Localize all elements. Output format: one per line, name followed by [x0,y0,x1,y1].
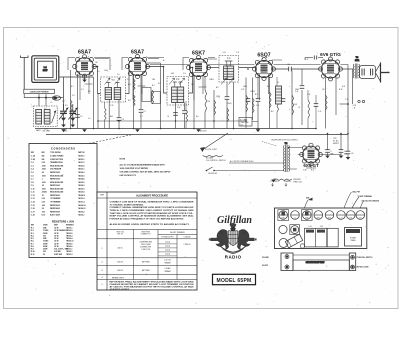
tube V4 [253,52,276,80]
svg-text:1400 KC: 1400 KC [117,270,124,272]
svg-text:REF: REF [31,224,34,226]
svg-text:3-30: 3-30 [42,202,45,204]
svg-text:7B100-4: 7B100-4 [66,237,73,240]
svg-text:IN SERIES WITH: IN SERIES WITH [140,246,151,248]
svg-text:C-11: C-11 [236,52,239,54]
svg-text:C-9: C-9 [31,185,34,187]
svg-text:3-30: 3-30 [42,198,45,200]
speaker [360,63,390,83]
svg-text:3-30: 3-30 [42,162,45,164]
svg-text:TEST POINT: TEST POINT [141,231,150,233]
svg-text:.0001: .0001 [42,182,46,184]
svg-text:C-10: C-10 [223,52,226,54]
svg-text:R-3: R-3 [88,91,91,93]
svg-text:7A101-2: 7A101-2 [78,161,85,164]
svg-text:CONNECT SIGNAL GENERATOR HIGH: CONNECT SIGNAL GENERATOR HIGH SIDE TO PO… [110,206,195,209]
svg-text:TRIMMER: TRIMMER [164,271,171,273]
svg-text:R-8: R-8 [271,111,274,113]
svg-text:R-10: R-10 [339,89,342,91]
svg-text:KEEP VOLUME CONTROL AT MAXIMUM: KEEP VOLUME CONTROL AT MAXIMUM DURING AL… [110,215,194,218]
capacitor C-9 [182,110,187,112]
svg-text:.05: .05 [128,73,130,75]
svg-text:.05: .05 [42,185,44,187]
chassis layout top view [275,208,367,249]
svg-text:.05: .05 [167,116,169,118]
svg-text:.1 MFD COND: .1 MFD COND [141,249,150,251]
wire T2 to grid V3 [189,68,193,94]
svg-text:ON-OFF: ON-OFF [262,265,268,267]
svg-text:C-7: C-7 [140,116,143,118]
parts list table [29,144,97,258]
crest [209,223,257,253]
svg-text:.1: .1 [42,179,43,181]
svg-text:2 GANG TUNING: 2 GANG TUNING [50,155,64,158]
svg-text:7A104-3: 7A104-3 [78,184,85,187]
misc component labels [72,59,342,109]
resistor R-4 [134,79,136,90]
svg-text:.0001: .0001 [171,73,175,75]
alignment procedure table [97,192,197,291]
svg-text:R-6: R-6 [208,101,211,103]
svg-text:LOW-M LOOP POSITION: LOW-M LOOP POSITION [30,92,50,94]
svg-text:PAPER 600V: PAPER 600V [50,210,61,213]
svg-text:8: 8 [331,151,332,153]
svg-text:7A105-2: 7A105-2 [78,210,85,213]
svg-text:365: 365 [42,156,45,158]
svg-text:C-2: C-2 [294,217,296,219]
svg-text:ON-OFF SW: ON-OFF SW [208,173,217,175]
output transformer T-3 [353,57,360,104]
svg-text:C-15: C-15 [31,205,35,207]
svg-text:R-2: R-2 [152,85,155,87]
svg-text:R-4: R-4 [128,84,131,86]
svg-text:50: 50 [43,254,45,256]
svg-text:C-18: C-18 [353,105,357,107]
svg-text:PAPER 600V: PAPER 600V [50,204,61,207]
T3 bottoms [227,82,234,129]
svg-text:R-7 1 MEG: R-7 1 MEG [240,120,248,122]
svg-text:POWER: POWER [350,238,357,240]
svg-text:TO CHASSIS. DUMMY ANTENNA.: TO CHASSIS. DUMMY ANTENNA. [110,203,145,206]
plate load 6SQ7 [269,77,271,129]
svg-text:ELECT 450V: ELECT 450V [50,214,61,217]
svg-text:ALIGNMENT PROCEDURE: ALIGNMENT PROCEDURE [136,194,168,198]
svg-text:.05: .05 [351,153,353,155]
svg-text:C-12: C-12 [31,195,35,197]
IF transformer T1 [101,77,126,102]
svg-text:C-6: C-6 [117,74,120,76]
volume control R-9 [200,133,228,162]
svg-text:ON-OFF SWITCH ON VOL CONTROL: ON-OFF SWITCH ON VOL CONTROL [271,140,298,142]
extra caps [246,98,251,100]
svg-text:C-5: C-5 [31,172,34,174]
svg-text:REF: REF [31,152,34,154]
cathode 6V6 [325,78,327,129]
svg-text:SUPPLY: SUPPLY [333,143,339,145]
wire loop to grid [59,77,94,110]
svg-text:8-16: 8-16 [42,215,45,217]
svg-text:MICA MOULDED: MICA MOULDED [50,187,64,190]
svg-text:C-14: C-14 [31,201,35,204]
svg-text:C-13 (1): C-13 (1) [165,246,171,248]
oscillator coil L2 box [34,106,58,127]
svg-text:B: B [262,58,263,60]
svg-text:C-17: C-17 [31,211,35,213]
node dots on antenna wire [38,97,40,99]
rectifier plate wires [298,155,341,169]
svg-text:RADIO: RADIO [225,254,242,259]
svg-text:6SQ7: 6SQ7 [257,52,270,58]
svg-text:C-4: C-4 [88,118,91,120]
svg-text:7A104-12: 7A104-12 [78,207,85,210]
AF coupling block [276,86,282,104]
svg-text:R-5: R-5 [128,100,131,102]
svg-text:RESISTORS ± 20%: RESISTORS ± 20% [52,220,75,223]
svg-text:CONNECT LOW SIDE OF SIGNAL GEN: CONNECT LOW SIDE OF SIGNAL GENERATOR THR… [110,200,195,203]
extra junction dots [97,66,349,149]
wire 6V6 plate to output transformer [340,68,353,70]
svg-text:PAPER 200V: PAPER 200V [50,184,61,187]
svg-text:5 TO 6 MT'G: 5 TO 6 MT'G [270,181,279,183]
svg-text:.01: .01 [42,195,44,197]
svg-text:FLEX WW: FLEX WW [54,254,62,256]
svg-text:R-11: R-11 [31,254,35,256]
svg-text:MODEL 65PM: MODEL 65PM [217,278,252,284]
svg-text:.0001: .0001 [42,188,46,190]
svg-text:C-15: C-15 [240,124,243,126]
AC switch wiring [222,163,280,171]
svg-text:7A104-3: 7A104-3 [78,171,85,174]
phono terminal box [239,118,252,127]
svg-text:R-12: R-12 [311,169,314,171]
svg-text:6SA7: 6SA7 [131,49,144,55]
svg-text:C-16: C-16 [295,91,298,93]
svg-text:C-12: C-12 [241,89,244,91]
capacitor C-11 [225,96,230,98]
svg-text:VOL CONTROL + SWITCH: VOL CONTROL + SWITCH [206,160,226,162]
note text block [120,158,172,177]
svg-text:6SQ7: 6SQ7 [328,217,332,219]
variable capacitor C-1B [68,104,77,125]
svg-text:C-17: C-17 [305,59,308,61]
svg-text:SCREWS: SCREWS [284,181,291,183]
svg-text:C-7: C-7 [144,111,147,113]
svg-text:7A102-5: 7A102-5 [78,181,85,184]
diode load resistors [245,78,247,129]
svg-text:B+: B+ [163,60,165,62]
svg-text:C-7: C-7 [31,179,34,181]
svg-text:MICA MOULDED: MICA MOULDED [50,164,64,167]
svg-text:I F TRIMMER: I F TRIMMER [50,202,61,204]
svg-text:455 KC: 455 KC [118,248,124,250]
tone capacitor C-17 [305,57,313,59]
wire T3 to 6SQ7 [239,67,256,69]
IF transformer T2 [167,77,189,106]
cathode network V2 [133,75,135,129]
model 65PM box [213,274,256,284]
tube V1 [73,50,97,79]
svg-text:7A101-4: 7A101-4 [78,201,85,204]
svg-text:VOLUME CONTROL SET AT MAX, ZER: VOLUME CONTROL SET AT MAX, ZERO SIG INPU… [120,171,172,174]
svg-text:6SA7: 6SA7 [78,50,91,56]
svg-text:NOTE: NOTE [120,158,126,160]
svg-text:C-11: C-11 [31,192,35,194]
svg-text:7B102-3: 7B102-3 [66,254,73,256]
line cap C-23 [347,134,349,152]
svg-text:FIELD COIL: FIELD COIL [294,181,303,183]
svg-text:R-2: R-2 [158,83,161,85]
B+ line right [347,104,349,134]
svg-text:C-12: C-12 [256,105,259,107]
heater wires [85,84,207,87]
svg-text:C-18: C-18 [31,215,35,217]
filter capacitor C-22 [340,134,342,150]
svg-text:6X5: 6X5 [359,217,362,219]
svg-text:7A100-1: 7A100-1 [78,155,85,158]
svg-text:C-6: C-6 [122,119,125,121]
svg-text:TEST OSC: TEST OSC [116,231,124,233]
cathode 6SQ7 [257,77,259,99]
wire plate V2 to T2 [147,67,168,94]
svg-text:C-2: C-2 [62,101,65,103]
wire under loop label [24,94,63,98]
wire x77.5 [77,74,79,129]
svg-text:C-3: C-3 [81,89,84,91]
svg-text:C-15: C-15 [318,111,321,113]
svg-text:7A104-14: 7A104-14 [78,204,85,207]
capacitor C-6 [117,117,122,119]
svg-text:C-10: C-10 [31,188,35,190]
tone cap [301,90,303,125]
svg-text:C-13: C-13 [31,198,35,200]
extra stage wires [80,75,269,100]
svg-text:7A102-5: 7A102-5 [78,187,85,190]
svg-text:PM SPKR: PM SPKR [294,179,302,181]
svg-text:C O N D E N S E R S: C O N D E N S E R S [51,148,75,151]
svg-text:CONNECT TO:: CONNECT TO: [141,234,152,236]
svg-text:OHMS: OHMS [43,224,48,226]
svg-text:.0001: .0001 [42,175,46,177]
wire plate V3 to T3 [208,67,220,69]
B+ node [347,103,349,105]
svg-text:7A102-5: 7A102-5 [78,174,85,177]
svg-text:CHASSIS FRONT VIEW: CHASSIS FRONT VIEW [306,261,325,264]
B- bus wire [46,134,348,136]
svg-text:R-1: R-1 [65,105,68,107]
screen dropper box [142,88,151,102]
resistor R-6 [205,90,207,112]
wire T1 to grid V2 [126,67,130,94]
svg-text:.006: .006 [42,211,45,213]
svg-text:T-3: T-3 [356,57,358,59]
svg-text:C-4C OSC: C-4C OSC [164,260,171,262]
tube V2 [126,49,150,78]
svg-text:L-2: L-2 [44,108,47,110]
tube V5 [319,52,343,81]
svg-text:.0002: .0002 [42,169,46,171]
svg-text:.01: .01 [277,82,279,84]
svg-text:PAPER 400V: PAPER 400V [50,207,61,210]
AVC line [98,120,246,122]
svg-text:PAPER 400V: PAPER 400V [50,194,61,197]
svg-text:.05: .05 [42,172,44,174]
svg-text:POINTER AT EXACT FREQUENCY OF: POINTER AT EXACT FREQUENCY OF TEST OSC B… [110,218,185,221]
svg-text:ALL DC VOLTAGE MEASUREMENTS MA: ALL DC VOLTAGE MEASUREMENTS MADE WITH [120,163,166,166]
svg-text:C-14 (2): C-14 (2) [165,250,171,252]
svg-text:THAT WILL GIVE GOOD OUTPUT MET: THAT WILL GIVE GOOD OUTPUT METER READING… [110,212,195,215]
svg-text:STEPS: STEPS [100,195,104,197]
svg-text:C-2: C-2 [31,162,34,164]
svg-text:365: 365 [42,159,45,161]
chassis front view [281,253,356,271]
svg-text:R-6: R-6 [196,116,199,118]
svg-text:PAPER 200V: PAPER 200V [50,178,61,181]
svg-text:R-7: R-7 [255,94,258,96]
wire x214 [213,90,215,129]
field coil resistor [277,179,292,180]
svg-text:R-6: R-6 [216,87,219,89]
svg-text:C-3: C-3 [31,165,34,167]
capacitor C-7 [140,76,142,110]
loop antenna L1 [32,56,59,83]
svg-text:C-8: C-8 [191,84,194,86]
IF trimmer arrows [105,78,111,85]
tube V3 [187,50,211,79]
svg-text:R-9 VOL CONT: R-9 VOL CONT [205,149,217,151]
svg-text:C-3: C-3 [97,71,100,73]
tube V6 [300,143,323,166]
mounting note arrows [270,181,291,186]
antenna [21,56,29,90]
scan speckle [8,30,394,306]
cathode V3 [193,76,195,129]
svg-text:7A103-1: 7A103-1 [78,168,85,171]
extra resistor marks [105,108,107,120]
svg-text:T-2: T-2 [285,143,287,145]
svg-text:R-1: R-1 [71,86,74,88]
svg-text:MICA MOULDED: MICA MOULDED [50,191,64,194]
svg-text:C-4: C-4 [72,95,75,97]
chassis leader labels [305,191,379,208]
svg-text:C-17: C-17 [340,217,343,219]
wire plate V1 to T1 [93,67,100,94]
svg-text:C-8: C-8 [31,182,34,184]
svg-text:ALIGN IN ORDER GIVEN. REPEAT S: ALIGN IN ORDER GIVEN. REPEAT STEPS TO AS… [110,223,191,226]
wire x160.5 [160,63,162,129]
svg-text:C-16: C-16 [307,94,310,96]
svg-text:.005: .005 [42,205,45,207]
ground marks on bus [61,129,260,132]
svg-text:C-14: C-14 [177,107,180,109]
power transformer T-2 [280,143,303,172]
B+ distribution wire [150,65,348,105]
coupling 6SQ7 to 6V6 [273,68,322,70]
svg-text:L-2: L-2 [50,102,52,104]
on-off switch [207,167,223,171]
svg-text:C-4: C-4 [31,168,34,171]
svg-text:ADJUSTED OUTPUT.: ADJUSTED OUTPUT. [110,288,131,291]
wire x98 [97,94,99,129]
svg-text:7A104-11: 7A104-11 [78,194,85,197]
svg-text:COND SECTION: COND SECTION [50,159,64,161]
svg-text:C-6: C-6 [31,175,34,177]
svg-text:7A100-1: 7A100-1 [78,158,85,161]
svg-text:R-8: R-8 [295,104,298,106]
extra value labels [36,52,348,133]
svg-text:LINE VOLTAGE 117V: LINE VOLTAGE 117V [120,174,137,177]
svg-text:7A102-5: 7A102-5 [78,164,85,167]
variable capacitor C-1A [59,104,68,125]
wires T2 bottom [176,103,185,129]
svg-text:7A101-4: 7A101-4 [78,197,85,200]
resistor R1 [71,100,73,112]
screen 6V6 [335,78,337,116]
wire from terminal box [252,121,258,123]
svg-text:PUSH PULL SWITCH: PUSH PULL SWITCH [357,257,374,259]
svg-text:16: 16 [344,151,346,153]
svg-text:MICA MOULDED: MICA MOULDED [50,181,64,184]
svg-text:TRIMMER: TRIMMER [164,262,171,264]
svg-text:6SK7: 6SK7 [317,217,320,219]
svg-text:7A104-8: 7A104-8 [78,178,85,181]
svg-text:6V6 GT/G: 6V6 GT/G [320,52,341,57]
cathode ground V1 [84,75,86,79]
svg-text:VOLUME: VOLUME [262,257,269,259]
svg-text:C-13 (2): C-13 (2) [165,242,171,244]
svg-text:C-1A: C-1A [31,155,36,158]
svg-text:OSC TRIM: OSC TRIM [42,131,50,133]
svg-text:R-7: R-7 [267,86,270,88]
svg-text:C-13: C-13 [110,105,113,107]
svg-text:.02: .02 [42,208,44,210]
svg-text:7A106-1: 7A106-1 [78,214,85,217]
trimmer C-2 oval [52,96,60,100]
svg-text:.02: .02 [298,107,300,109]
svg-text:C-16: C-16 [31,208,35,210]
svg-text:1620 KC: 1620 KC [117,261,124,263]
svg-text:R-4: R-4 [31,234,34,237]
svg-text:MICA MOULDED: MICA MOULDED [50,174,64,177]
top cap wires [95,59,282,61]
svg-text:TONE COND: TONE COND [240,122,249,124]
stage frame wires [68,58,110,71]
svg-text:C-14: C-14 [320,226,323,228]
capacitor C-5 [75,114,80,116]
svg-text:+ B: + B [353,108,355,110]
filter capacitor C-21 [327,134,329,150]
svg-text:R-11: R-11 [342,86,345,88]
wires into osc box [39,98,46,106]
svg-text:C-5: C-5 [80,116,83,118]
svg-text:I F TRIMMER: I F TRIMMER [50,198,61,200]
gang link dashed [46,135,133,153]
svg-text:PAPER 200V: PAPER 200V [50,171,61,174]
resistor R-5 [134,95,136,106]
svg-text:6V6: 6V6 [350,217,353,219]
bus junction dots [70,128,72,130]
ground bus wire [35,128,316,130]
grid resistor 6V6 [291,71,293,129]
svg-text:C-1B: C-1B [31,159,36,161]
svg-text:CONVERTER GRID: CONVERTER GRID [139,242,152,244]
AVC caps [256,98,261,100]
svg-text:THRU A .1 MFD CONDENSER. USE L: THRU A .1 MFD CONDENSER. USE LOWEST OUTP… [110,209,195,212]
svg-text:C-13: C-13 [308,226,311,228]
svg-text:2 THRU 10: 2 THRU 10 [184,244,191,246]
IF transformer T3 [219,56,239,83]
svg-text:.0001: .0001 [42,165,46,167]
svg-text:.00025: .00025 [227,103,232,105]
